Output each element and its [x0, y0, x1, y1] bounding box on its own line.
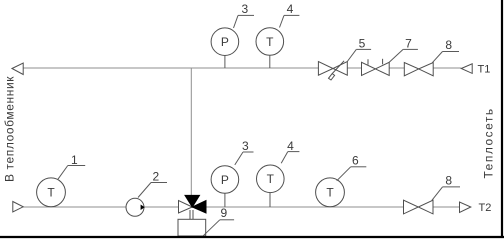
wire actuator stems: [189, 210, 191, 219]
label 4 top with leader: [280, 15, 285, 27]
wire stem of top thermometer: [269, 55, 271, 68]
label 3 bottom with leader: [235, 152, 243, 165]
gauge U-P1 pressure gauge top circle: [211, 28, 239, 56]
frame border right: [501, 0, 503, 238]
svg-text:5: 5: [359, 36, 366, 50]
svg-text:T: T: [47, 186, 55, 200]
svg-text:9: 9: [221, 206, 228, 220]
svg-text:Теплосеть: Теплосеть: [482, 107, 496, 178]
svg-text:В теплообменник: В теплообменник: [3, 76, 17, 182]
arrow T2 outlet: [460, 202, 471, 212]
thermometer 1 circle on pipe: [37, 178, 66, 207]
label 8 bottom with leader: [432, 187, 443, 201]
thermometer 4 bottom circle: [257, 165, 285, 193]
label 1 with leader: [58, 166, 68, 180]
wire bottom pipe right segment: [433, 206, 460, 208]
arrow bottom-left inlet from heat exchanger: [13, 202, 23, 213]
svg-text:2: 2: [152, 170, 159, 184]
svg-text:8: 8: [445, 38, 452, 52]
svg-text:4: 4: [287, 2, 294, 16]
wire bottom pipe middle segment: [206, 206, 404, 208]
label 7 with leader: [389, 49, 403, 62]
svg-text:T: T: [326, 186, 334, 200]
three-way valve 9 top filled triangle: [185, 195, 200, 207]
label 4 bottom with leader: [281, 152, 288, 164]
svg-text:T: T: [267, 172, 275, 186]
three-way valve 9 left open triangle: [179, 201, 193, 214]
three-way valve 9 right filled triangle: [192, 201, 206, 214]
gauge pressure bottom circle: [211, 166, 239, 194]
actuator box of valve 9: [178, 219, 206, 236]
svg-text:7: 7: [405, 36, 412, 50]
wire stem of top pressure gauge: [224, 56, 226, 69]
thermometer 6 circle on pipe: [316, 178, 345, 207]
svg-text:P: P: [221, 35, 229, 49]
arrow T1 inlet: [461, 64, 472, 74]
label 2 with leader: [138, 183, 151, 198]
svg-text:1: 1: [71, 153, 78, 167]
valve 8 top gate valve body: [404, 63, 418, 76]
svg-text:Т1: Т1: [478, 64, 491, 76]
wire stem of bottom pressure gauge: [224, 193, 226, 207]
svg-text:3: 3: [241, 2, 248, 16]
svg-text:P: P: [221, 173, 229, 187]
svg-text:3: 3: [242, 139, 249, 153]
wire vertical branch from top pipe to three-way valve: [190, 68, 192, 195]
valve 5 balancing valve body: [318, 62, 333, 76]
wire top pipe between valve 5 and valve 7: [347, 67, 361, 69]
svg-text:4: 4: [287, 139, 294, 153]
pump 2 direction arrowhead: [141, 205, 145, 211]
frame border bottom: [0, 236, 504, 238]
wire stem of bottom thermometer: [269, 193, 271, 207]
label 6 with leader: [337, 167, 351, 181]
svg-text:Т2: Т2: [479, 202, 492, 214]
wire bottom return pipe left segment: [23, 206, 179, 208]
svg-text:T: T: [266, 35, 274, 49]
valve 7 body with ticks: [362, 62, 376, 75]
svg-text:6: 6: [352, 154, 359, 168]
wire top pipe between valve 7 and valve 8: [389, 67, 404, 69]
valve 8 bottom gate valve body: [404, 200, 419, 214]
svg-text:8: 8: [445, 174, 452, 188]
wire top pipe between valve 8 and T1 arrow: [433, 67, 461, 69]
arrow top-left outlet to heat exchanger: [12, 63, 23, 75]
thermometer top circle: [256, 28, 284, 56]
pump 2 circle: [126, 198, 144, 216]
label 8 top with leader: [432, 52, 442, 63]
label 3 top with leader: [234, 15, 239, 28]
label 9 with leader: [203, 220, 220, 236]
valve 5 slash handle: [332, 61, 344, 74]
wire top supply pipe segment left: [23, 67, 318, 69]
label 5 with leader: [347, 49, 356, 61]
